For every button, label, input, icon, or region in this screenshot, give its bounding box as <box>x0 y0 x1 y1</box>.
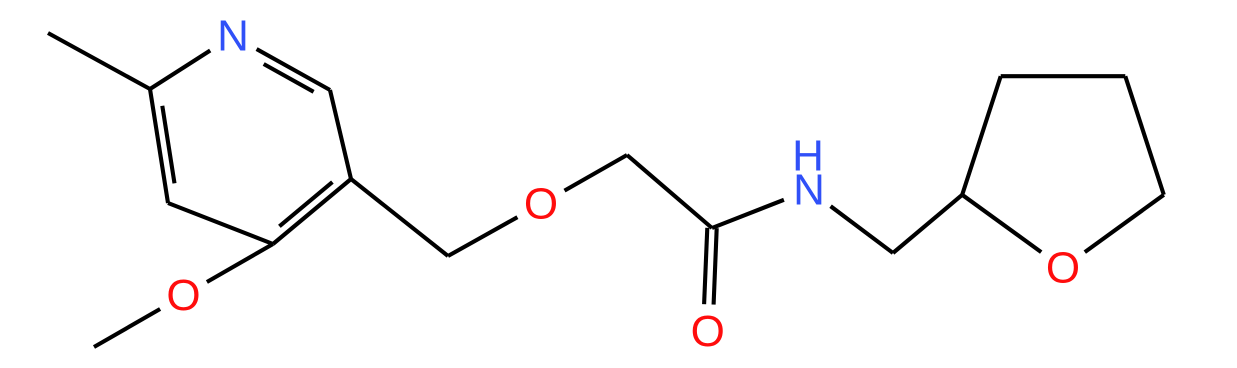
bond C3-C4 <box>168 203 273 244</box>
svg-text:N: N <box>217 12 249 61</box>
bond C7-N4 amide <box>712 200 784 228</box>
bond C2-CH3 methyl <box>48 33 150 89</box>
bond O3-CH2b <box>565 155 628 191</box>
svg-text:O: O <box>1046 244 1080 293</box>
bond CH2b-C7 <box>627 155 712 228</box>
bond C4-O2 <box>207 244 273 282</box>
bond CH2a-O3 <box>448 217 517 256</box>
bond C3p-C4p THF ring <box>1001 74 1126 78</box>
bond C4=C5 <box>273 179 351 244</box>
bond CH2c-C2p <box>893 195 962 253</box>
bond O6-C2p THF ring <box>962 195 1041 252</box>
bond C5-CH2a <box>351 179 448 256</box>
bond N1-C2 (pyridine) <box>150 51 210 90</box>
bond C5p-O6 THF ring <box>1085 195 1164 252</box>
bond C4p-C5p THF ring <box>1125 76 1164 195</box>
bond N4-CH2c <box>831 206 893 253</box>
bond C7=O5 carbonyl <box>704 228 717 305</box>
bond C5-C6 <box>330 90 351 179</box>
svg-text:O: O <box>166 271 200 320</box>
bond C2p-C3p THF ring <box>962 76 1001 195</box>
bond O2-CH3 methoxy methyl <box>94 309 160 347</box>
svg-text:O: O <box>524 180 558 229</box>
bond C2=C3 <box>150 89 175 203</box>
svg-text:H: H <box>792 132 824 181</box>
bond C6=N1 <box>257 49 330 92</box>
svg-text:O: O <box>691 307 725 356</box>
